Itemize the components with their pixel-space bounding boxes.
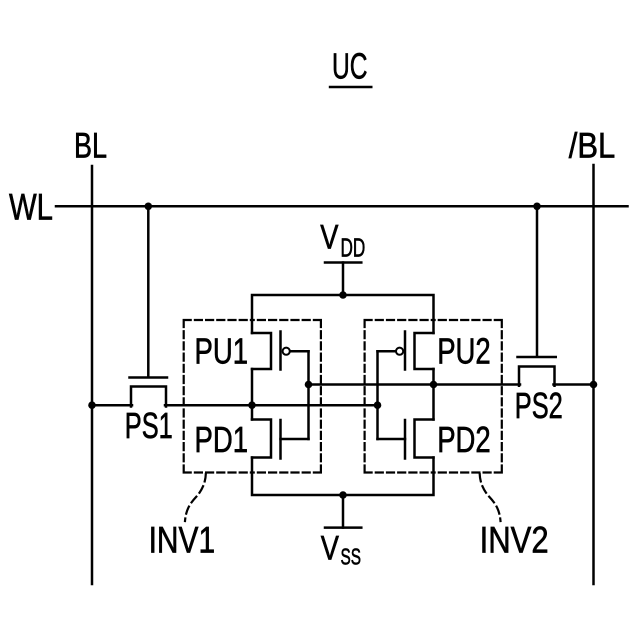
junction dot /BL x node B [590,381,598,389]
wire VDD top rail [252,295,434,333]
dashed box INV2 [365,320,502,473]
wire PS2 to /BL [554,383,594,386]
svg-text:DD: DD [341,233,366,263]
junction dot VDD stem x top rail [339,291,347,299]
VSS power symbol [325,495,361,528]
junction dot WL x PS2 gate [533,203,541,211]
wire left inverter output rail [251,369,254,420]
junction dot VSS stem x bottom rail [339,491,347,499]
transistor PD1 (NMOS pull-down) [252,420,309,459]
transistor PS1 (pass, NMOS) [130,378,168,407]
junction dot left rail x node A [248,401,256,409]
VDD power symbol [325,263,361,296]
wire /BL (complement bit line) [592,165,595,584]
wire left gate coupling line [307,351,310,439]
svg-text:UC: UC [332,46,368,87]
label WL [9,187,53,228]
svg-text:INV2: INV2 [480,519,549,560]
svg-text:PU1: PU1 [195,331,249,372]
wire BL to PS1 [92,404,132,407]
label VSS [321,530,361,570]
label /BL [569,127,616,166]
junction dot WL x PS1 gate [145,203,153,211]
svg-text:WL: WL [9,187,53,228]
label PS2 [515,385,563,426]
leader INV2 [480,474,501,521]
svg-text:PD2: PD2 [437,419,491,460]
wire right inverter output rail [432,369,435,420]
junction dot BL x node A [88,401,96,409]
dashed box INV1 [184,320,321,473]
wire right gate coupling line [376,351,379,439]
label PU1 [195,331,249,372]
label PD1 [195,419,249,460]
label PS1 [125,405,173,446]
label VDD [320,219,365,263]
transistor PS2 (pass, NMOS) [518,357,556,386]
svg-text:PS1: PS1 [125,405,173,446]
junction dot right rail x node B [430,381,438,389]
svg-text:INV1: INV1 [149,519,216,560]
label INV1 [149,519,216,560]
svg-text:BL: BL [74,127,107,166]
wire node A: PS1 to right inverter gates [165,404,378,407]
label UC [332,46,368,87]
junction dot right gate line x node A [374,401,382,409]
wire WL (word line) [56,205,628,208]
junction dot left gate line x node B [305,381,313,389]
transistor PU1 (PMOS pull-up) [252,332,309,370]
svg-text:V: V [320,219,338,257]
label BL [74,127,107,166]
wire PS1 gate stem from WL [147,206,150,376]
label PD2 [437,419,491,460]
leader INV1 [185,474,206,521]
wire VSS bottom rail [252,458,434,496]
svg-text:/BL: /BL [569,127,616,166]
label PU2 [437,331,491,372]
wire BL (bit line) [91,166,94,584]
wire node B: left inverter gates to PS2 [309,383,521,386]
label INV2 [480,519,549,560]
wire PS2 gate stem from WL [536,206,539,355]
svg-text:SS: SS [341,544,362,570]
svg-text:PU2: PU2 [437,331,491,372]
transistor PU2 (PMOS pull-up) [378,332,434,370]
svg-text:PS2: PS2 [515,385,563,426]
transistor PD2 (NMOS pull-down) [378,420,434,459]
svg-text:V: V [321,530,339,568]
UC underline [330,86,371,88]
svg-text:PD1: PD1 [195,419,249,460]
